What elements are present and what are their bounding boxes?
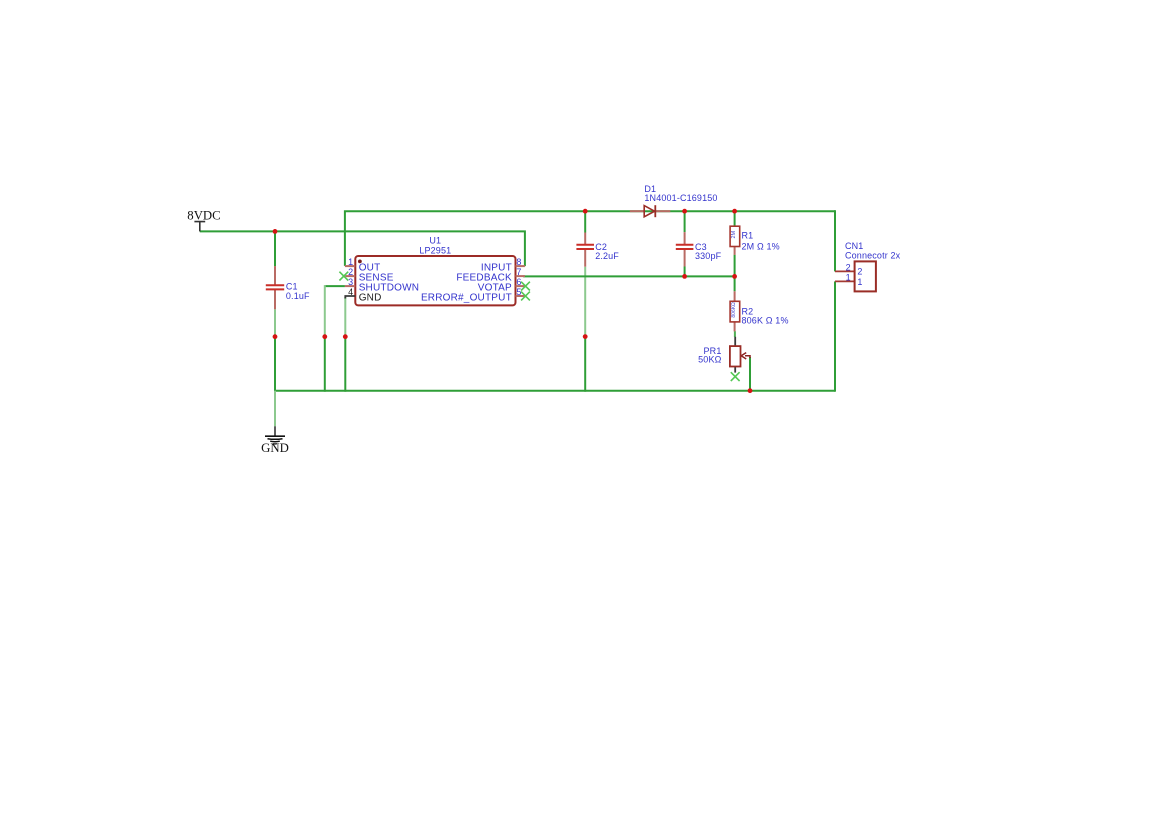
wire C2 bottom light xyxy=(584,267,586,337)
node pin3 branch join xyxy=(322,334,327,339)
svg-text:GND: GND xyxy=(359,292,382,303)
resistor R2 xyxy=(730,291,789,331)
wire right rail upper xyxy=(834,210,836,271)
wire PR1 wiper drop xyxy=(749,357,751,392)
node C2 branch join xyxy=(583,334,588,339)
pin 3 SHUTDOWN xyxy=(345,285,355,287)
svg-text:330pF: 330pF xyxy=(695,251,722,261)
svg-text:806K Ω 1%: 806K Ω 1% xyxy=(742,315,789,325)
wire 8VDC to INPUT pin 8 xyxy=(200,231,525,266)
svg-text:1: 1 xyxy=(846,273,851,283)
wire ground bus xyxy=(275,390,835,392)
diode D1 xyxy=(630,184,718,217)
svg-text:806KΩ: 806KΩ xyxy=(731,302,737,318)
wire pin3 drop light xyxy=(324,285,326,337)
pin 1 OUT xyxy=(345,265,355,267)
no-connect X pin 6 xyxy=(521,282,530,291)
no-connect X PR1 pin xyxy=(731,372,740,381)
svg-text:2: 2 xyxy=(348,267,353,277)
wire C3 top xyxy=(684,211,686,232)
no-connect X pin 2 xyxy=(339,272,348,281)
svg-text:50KΩ: 50KΩ xyxy=(698,355,721,365)
wire C1 to bus xyxy=(274,337,276,392)
node C1 branch join xyxy=(273,334,278,339)
op-amp U1 LP2951 xyxy=(339,236,530,306)
junction C3 top xyxy=(682,209,687,214)
svg-text:R1: R1 xyxy=(742,231,754,241)
junction R1/R2 feedback xyxy=(732,274,737,279)
resistor R1 xyxy=(730,226,780,255)
svg-text:4: 4 xyxy=(348,287,353,297)
svg-text:6: 6 xyxy=(516,277,521,287)
capacitor C2 xyxy=(576,233,619,267)
junction PR1 wiper bus xyxy=(748,388,753,393)
wire OUT pin1 rail top xyxy=(345,211,835,266)
capacitor C1 xyxy=(266,266,310,309)
pin 6 VOTAP xyxy=(516,285,525,287)
connector CN1 xyxy=(835,241,901,292)
svg-text:8VDC: 8VDC xyxy=(187,209,220,223)
svg-text:Connecotr 2x: Connecotr 2x xyxy=(845,250,901,260)
capacitor C3 xyxy=(676,232,722,266)
svg-text:2: 2 xyxy=(846,262,851,272)
no-connect X pin 5 xyxy=(521,292,530,301)
svg-text:CN1: CN1 xyxy=(845,241,863,251)
svg-text:5: 5 xyxy=(516,287,521,297)
wire GND pin4 drop light xyxy=(344,297,346,337)
svg-text:3: 3 xyxy=(348,277,353,287)
potentiometer PR1 xyxy=(698,337,750,373)
svg-text:GND: GND xyxy=(261,441,289,455)
junction C3 feedback xyxy=(682,274,687,279)
svg-text:2M Ω 1%: 2M Ω 1% xyxy=(742,241,780,251)
svg-text:1: 1 xyxy=(857,277,862,287)
wire R1 bottom xyxy=(734,255,736,277)
node pin4 branch join xyxy=(343,334,348,339)
wire C1 bottom light xyxy=(274,309,276,336)
wire C3 bottom xyxy=(684,267,686,277)
wire C2 top xyxy=(584,211,586,232)
wire C1 top xyxy=(274,231,276,266)
svg-text:1N4001-C169150: 1N4001-C169150 xyxy=(644,193,717,203)
svg-text:8: 8 xyxy=(516,257,521,267)
pin 2 SENSE xyxy=(345,275,355,277)
pin 5 ERROR#_OUTPUT xyxy=(516,295,525,297)
wire R2 to PR1 xyxy=(734,331,736,337)
svg-text:2M: 2M xyxy=(731,230,737,238)
wire R1 top xyxy=(734,211,736,226)
wire GND stem light xyxy=(274,391,276,427)
wire feedback line xyxy=(523,275,734,277)
pin 8 INPUT xyxy=(516,265,525,267)
pin 7 FEEDBACK xyxy=(516,275,525,277)
wire right rail lower xyxy=(834,281,836,391)
junction 8VDC/C1 xyxy=(273,229,278,234)
svg-text:1: 1 xyxy=(348,257,353,267)
power flag 8VDC xyxy=(187,209,220,232)
wire pin3 to bus xyxy=(324,337,326,392)
svg-text:2: 2 xyxy=(857,266,862,276)
wire pin4 to bus xyxy=(344,337,346,392)
wire R2 top xyxy=(734,276,736,291)
svg-text:0.1uF: 0.1uF xyxy=(286,291,310,301)
junction R1 top xyxy=(732,209,737,214)
svg-text:U1: U1 xyxy=(429,236,441,246)
svg-text:ERROR#_OUTPUT: ERROR#_OUTPUT xyxy=(421,292,512,303)
wire SHUTDOWN pin3 xyxy=(325,285,345,287)
ground xyxy=(261,426,289,455)
junction C2 top xyxy=(583,209,588,214)
pin 4 GND xyxy=(345,296,355,299)
wire C2 to bus xyxy=(584,337,586,392)
svg-text:2.2uF: 2.2uF xyxy=(595,251,619,261)
svg-text:7: 7 xyxy=(516,267,521,277)
svg-text:LP2951: LP2951 xyxy=(419,246,451,256)
